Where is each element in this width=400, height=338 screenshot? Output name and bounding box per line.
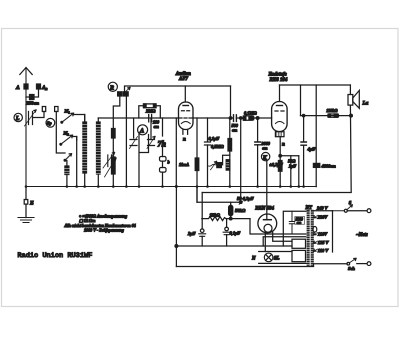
wire A2 to cap (34, 89, 39, 97)
switch S (344, 209, 347, 212)
meter A circle (138, 125, 148, 135)
svg-text:0,1μF: 0,1μF (209, 136, 220, 141)
svg-text:2μF: 2μF (288, 164, 296, 169)
capacitor 250cm (30, 95, 35, 100)
wire cathode branch right (280, 155, 299, 157)
svg-text:2MΩ: 2MΩ (145, 109, 156, 114)
pot wavy lead left (208, 164, 217, 166)
wire hv top rail (283, 211, 307, 246)
resistor cathode RES (278, 161, 282, 172)
wire cathode to bus (279, 171, 281, 186)
resistor 110k (328, 114, 339, 117)
svg-text:SL: SL (274, 257, 280, 262)
svg-text:N: N (251, 257, 256, 262)
wire speaker col top (315, 85, 317, 187)
tube RES164 envelope (272, 102, 288, 132)
ground bus wire (26, 186, 316, 188)
svg-text:250cm: 250cm (26, 101, 40, 106)
wire M1 to coil (74, 115, 85, 123)
svg-text:11mA: 11mA (179, 162, 189, 167)
wire cap to resistor (236, 117, 243, 119)
coupling capacitor 500cm (234, 115, 237, 122)
wire 7h column (162, 118, 164, 157)
switch M2 (61, 135, 73, 144)
wire column 240 (240, 118, 242, 202)
switch M1 (62, 113, 74, 122)
tube RES164 base box (275, 132, 284, 137)
wire 13k right corner (250, 219, 307, 234)
terminal A2 (37, 84, 41, 89)
svg-text:Sp: Sp (47, 121, 52, 126)
resistor 13k zigzag (202, 217, 250, 221)
resistor col T1 upper (112, 129, 116, 139)
junction 110k right (350, 114, 353, 117)
svg-text:110 V: 110 V (318, 248, 329, 253)
svg-text:0,1μF: 0,1μF (230, 231, 241, 236)
tube AF7 envelope (179, 102, 194, 130)
svg-text:1000 V - Prüfspannung: 1000 V - Prüfspannung (84, 227, 124, 232)
electrolytic cap 2uF (200, 229, 204, 233)
terminal above Sp (55, 107, 58, 112)
resistor col T1 lower with pot arrow (112, 157, 116, 174)
variable cap right pair (148, 140, 155, 146)
REN plate bar (264, 219, 272, 221)
pot arrow diagonal (211, 162, 217, 170)
terminal R right (124, 92, 129, 96)
wire 236 rail (263, 237, 306, 246)
svg-text:Radio Union RU31WF: Radio Union RU31WF (18, 252, 93, 260)
tuning coil winding 2 (97, 118, 99, 187)
ground symbol (18, 218, 34, 223)
terminal A (24, 84, 28, 89)
wire anode loop corner (230, 86, 232, 118)
junction 240-118 (240, 117, 242, 119)
wire E to ground (25, 187, 27, 218)
capacitor 0,1uF (205, 142, 211, 145)
resistor 2M (144, 104, 157, 108)
meter A legs box (139, 134, 149, 186)
tube AF7 internals (183, 105, 188, 107)
wire cap column right (150, 118, 152, 140)
wire T1 step down (113, 96, 120, 129)
svg-text:b: b (168, 160, 170, 165)
switch Sch (347, 262, 350, 265)
svg-text:n: n (183, 138, 186, 143)
resistor 0,5M column 229 (228, 139, 232, 152)
pot arrow (105, 158, 117, 177)
svg-text:110V: 110V (318, 232, 328, 237)
wire cap column 207 lower (207, 145, 209, 187)
terminal mains top (367, 209, 371, 213)
node R circle (108, 82, 117, 91)
tap arrow 110a (314, 233, 318, 235)
capacitor 4uF (301, 142, 306, 145)
variable capacitor tuning (29, 112, 33, 125)
capacitor 3000cm (255, 142, 261, 145)
svg-text:R: R (109, 85, 114, 91)
wire 4uF to bus (303, 145, 305, 186)
junction 257-118 (256, 117, 259, 120)
antenna symbol (20, 68, 32, 187)
wire screen column (196, 118, 198, 158)
junction heater left (175, 245, 178, 248)
secondary box lower (292, 250, 306, 261)
tap arrow 110b (314, 249, 318, 251)
terminal above trimmer (42, 107, 45, 112)
grid leak loop right (156, 106, 160, 118)
tube RES164 internals (277, 105, 283, 107)
winding texture (306, 212, 313, 265)
svg-text:M₁: M₁ (64, 109, 71, 114)
trimmer across coil (108, 155, 112, 167)
svg-text:cm: cm (297, 221, 302, 225)
wire 4uF column (303, 116, 305, 141)
wire transformer bottom to Sch (314, 264, 348, 266)
component 4000cm box (313, 163, 319, 167)
wire cap column 207 (207, 118, 209, 141)
resistor screen column (195, 158, 199, 171)
svg-text:~Netz: ~Netz (356, 233, 368, 238)
wire bottom rail (176, 266, 313, 268)
svg-text:RES 164: RES 164 (270, 78, 288, 83)
wire heater 246 (176, 245, 292, 247)
svg-text:REN 504: REN 504 (255, 206, 274, 211)
wire K to REN feed (266, 161, 268, 215)
svg-text:13kΩ: 13kΩ (210, 213, 221, 218)
wire AF7 cathode column (175, 118, 177, 187)
wire bus drop 197 (197, 187, 241, 203)
antenna coil winding 1 (84, 115, 86, 187)
resistor on M3 branch (66, 161, 68, 167)
wire 192 left corner down (201, 193, 203, 230)
wire column 257 (257, 118, 259, 141)
svg-text:S: S (349, 200, 352, 205)
wire M2 to coil tap (73, 137, 77, 141)
svg-text:0,1MΩ: 0,1MΩ (244, 111, 257, 116)
svg-text:4μF: 4μF (307, 147, 316, 152)
svg-text:NT: NT (305, 206, 313, 211)
wire 110k rail (301, 115, 352, 117)
wire branch col 298 (298, 156, 300, 187)
junction 50k bottom (229, 217, 232, 220)
terminal mains bottom (367, 262, 371, 266)
wire between link boxes (162, 161, 164, 167)
tube AF7 filament legs (183, 130, 188, 135)
junction dots on bus (25, 185, 305, 188)
svg-text:E: E (29, 201, 34, 207)
svg-text:cm: cm (232, 128, 238, 133)
svg-text:L: L (15, 116, 20, 122)
resistor 50k vertical (230, 202, 232, 205)
tube REN504 (258, 214, 277, 233)
electrolytic cap 0,1uF lower (226, 219, 228, 228)
secondary box upper (292, 239, 306, 248)
label 5000cm box (295, 217, 305, 225)
junction 4uF top (302, 114, 304, 116)
junction cathode branch (279, 155, 282, 158)
tube AF7 grid cap wire (184, 86, 186, 102)
svg-text:AF7: AF7 (178, 77, 189, 82)
svg-text:A: A (139, 127, 144, 134)
wire between resistors (112, 138, 114, 157)
wire grid top corner (98, 117, 178, 119)
hatch stripes on coils and resistors (64, 125, 282, 213)
wire output col 300 (300, 85, 302, 116)
resistor lower on 229 column (226, 160, 230, 170)
node Sp circle (46, 118, 55, 127)
wire plate AF7 right (193, 117, 233, 119)
REN leg left (264, 232, 266, 251)
wire S to terminal (347, 210, 367, 212)
svg-text:cm: cm (262, 146, 268, 151)
wire cap column left (133, 118, 135, 138)
wire right loop (202, 85, 351, 193)
node K circle (261, 152, 269, 160)
svg-text:A₂: A₂ (41, 85, 48, 91)
junction 202 line (239, 201, 242, 204)
svg-text:220V: 220V (317, 215, 329, 220)
arrow on R terminal (124, 88, 131, 94)
wire resistor to RES tube (258, 117, 272, 119)
terminal E (24, 200, 28, 205)
wire branch col 290 (290, 156, 292, 187)
wire screen column lower (196, 171, 198, 203)
lamp rail top (259, 251, 292, 253)
svg-text:50-0,2μF: 50-0,2μF (237, 196, 254, 201)
wire coil tap line (76, 137, 78, 187)
tap arrow 220 (314, 216, 318, 218)
svg-text:110kΩ: 110kΩ (326, 108, 337, 113)
bus end corner up (315, 186, 317, 188)
mains tap rail (332, 211, 334, 252)
resistor 0,1M coupling (243, 116, 254, 120)
fuse circle on winding (313, 227, 317, 233)
wire cathode column RES (279, 137, 281, 161)
tube RES164 grid cap wire (279, 85, 281, 102)
tap 240 (314, 210, 333, 212)
svg-text:2μF: 2μF (187, 231, 196, 236)
svg-text:125 V: 125 V (318, 240, 330, 245)
svg-text:Sch: Sch (348, 266, 355, 271)
svg-text:0,5MΩ: 0,5MΩ (211, 144, 224, 149)
svg-text:M₂: M₂ (63, 131, 70, 136)
REN leg right (273, 232, 292, 242)
wire RES plate top rail (280, 84, 351, 86)
svg-text:n: n (282, 143, 285, 148)
variable cap left pair (130, 140, 137, 146)
wire trimmer to terminal (33, 112, 45, 118)
svg-text:50kΩ: 50kΩ (235, 208, 246, 213)
tap arrow 125 (314, 241, 318, 243)
terminal R left (118, 92, 123, 96)
wire column 257 lower (257, 145, 259, 187)
speaker La (348, 95, 353, 106)
pot wire over to resistor (221, 155, 229, 165)
potentiometer box (217, 163, 222, 168)
link box b lower (160, 168, 167, 173)
svg-text:4000cm: 4000cm (321, 164, 337, 169)
node L circle (14, 113, 22, 121)
grid leak loop left (139, 106, 144, 118)
wire Sp terminal down (56, 112, 65, 154)
svg-text:cm: cm (154, 124, 160, 129)
capacitor 5000cm (289, 211, 294, 234)
wire link to bus (162, 172, 164, 186)
transformer NT winding left (307, 210, 310, 266)
wire T2 column (125, 96, 127, 187)
switch M3 (65, 154, 72, 161)
svg-text:La: La (362, 101, 369, 107)
lamp SL (264, 253, 273, 262)
wire R to top rail (125, 86, 231, 92)
REN filament circle (264, 224, 272, 232)
lamp rail bottom (259, 262, 307, 264)
svg-text:240 V: 240 V (316, 206, 329, 211)
svg-text:A: A (15, 85, 20, 91)
link box b upper (160, 157, 167, 162)
wire lower left column (175, 187, 177, 267)
junction anode-cap (229, 117, 232, 120)
transformer NT winding right (311, 210, 314, 266)
capacitor 100cm grid (149, 115, 152, 122)
